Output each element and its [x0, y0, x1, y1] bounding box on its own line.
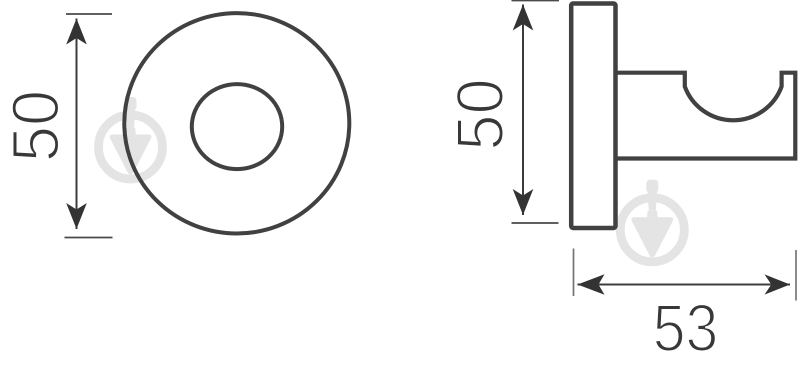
right 50 dim: top extension tick	[512, 0, 560, 2]
right 50 dim: bottom arrow	[513, 189, 534, 215]
svg-text:50: 50	[442, 78, 517, 150]
outer circle of rosette	[124, 13, 349, 233]
inner circle of rosette	[192, 84, 282, 169]
53 dim: left extension line	[573, 249, 575, 297]
53 dim: right arrow	[765, 274, 791, 294]
left dim: dimension line	[76, 19, 78, 230]
left dim: bottom extension tick	[65, 237, 113, 239]
watermark left	[99, 97, 163, 179]
left dim: top arrow	[66, 19, 87, 45]
53 dim: dimension line	[578, 284, 791, 286]
right 50 dim: top arrow	[513, 5, 534, 31]
53 dim: right extension line	[795, 250, 797, 301]
wall plate	[571, 4, 615, 229]
right 50 dim: dimension line	[522, 5, 524, 216]
svg-text:53: 53	[653, 292, 719, 366]
right 50 dim: bottom extension tick	[512, 222, 559, 224]
left dim: bottom arrow	[66, 203, 87, 229]
watermark right	[620, 180, 684, 262]
left dim: top extension tick	[66, 13, 112, 15]
53 dim: left arrow	[578, 274, 605, 294]
hook arm outline	[616, 73, 796, 159]
svg-text:50: 50	[0, 90, 73, 162]
